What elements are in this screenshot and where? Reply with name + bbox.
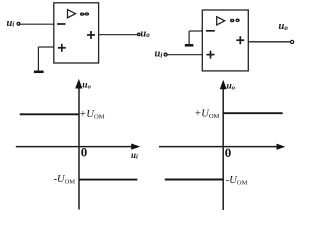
op-amp U1 gain triangle symbol bbox=[68, 10, 76, 18]
wire output (left circuit) bbox=[99, 34, 138, 36]
op-amp U2 output polarity label + bbox=[236, 36, 244, 44]
output terminal (right circuit) bbox=[291, 40, 294, 43]
left graph -UOM output level line bbox=[79, 179, 138, 181]
op-amp U2 gain triangle symbol bbox=[217, 17, 225, 25]
output terminal (left circuit) bbox=[138, 33, 140, 35]
left graph horizontal axis arrowhead bbox=[131, 144, 140, 150]
op-amp U2 infinity gain symbol bbox=[230, 19, 240, 23]
right graph -UOM output level line bbox=[165, 179, 223, 181]
op-amp U1 output polarity label + bbox=[87, 31, 95, 39]
op-amp U1 infinity gain symbol bbox=[80, 12, 89, 15]
left graph horizontal axis ui bbox=[16, 146, 134, 148]
wire output (right circuit) bbox=[248, 41, 290, 43]
wire non-inverting input to ground, vertical (left circuit) bbox=[37, 47, 39, 71]
op-amp U2 body (right comparator) bbox=[202, 10, 248, 71]
ground (right circuit) bbox=[185, 44, 194, 47]
wire input to inverting input (left circuit) bbox=[20, 23, 54, 25]
wire inverting input to ground, horizontal (right circuit) bbox=[189, 30, 202, 32]
input terminal (right circuit) bbox=[164, 53, 167, 56]
wire input to non-inverting input (right circuit) bbox=[167, 54, 202, 56]
op-amp U1 body (left comparator) bbox=[54, 3, 99, 63]
wire inverting input to ground, vertical (right circuit) bbox=[188, 31, 190, 45]
op-amp U1 non-inverting input label + bbox=[58, 44, 66, 52]
svg-text:uo: uo bbox=[140, 28, 150, 39]
op-amp U2 non-inverting input label + bbox=[207, 51, 215, 59]
right graph +UOM output level line bbox=[223, 112, 283, 114]
left graph +UOM output level line bbox=[20, 113, 79, 115]
input terminal (left circuit) bbox=[17, 22, 20, 25]
left graph vertical axis arrowhead bbox=[75, 79, 82, 89]
right graph vertical axis arrowhead bbox=[220, 80, 227, 90]
right graph horizontal axis bbox=[159, 146, 278, 148]
wire non-inverting input to ground, horizontal (left circuit) bbox=[38, 46, 53, 48]
right graph vertical axis uo bbox=[222, 87, 224, 210]
svg-text:0: 0 bbox=[225, 145, 232, 160]
ground (left circuit) bbox=[34, 71, 44, 74]
right graph horizontal axis arrowhead bbox=[277, 144, 286, 150]
left graph vertical axis uo bbox=[78, 86, 80, 210]
op-amp U2 inverting input label - bbox=[206, 30, 215, 32]
op-amp U1 inverting input label - bbox=[57, 23, 66, 25]
svg-text:0: 0 bbox=[81, 144, 88, 159]
svg-text:ui: ui bbox=[7, 18, 15, 29]
